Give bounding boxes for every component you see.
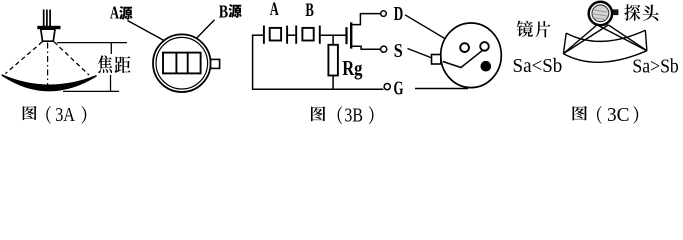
tab pointer polyline (443, 50, 483, 67)
svg-text:G: G (394, 78, 404, 100)
lens band bottom arc (563, 51, 647, 63)
pin circle right (480, 42, 489, 51)
IR source cap bar (37, 26, 60, 29)
svg-text:B: B (305, 0, 314, 21)
package key tab (432, 55, 441, 65)
pin circle left (460, 43, 469, 52)
wire bottom (252, 88, 384, 90)
svg-text:D: D (394, 3, 404, 25)
sensor outer circle (153, 34, 211, 92)
IR source pins (44, 10, 50, 27)
sensor inner circle (156, 37, 208, 89)
dimension line upper (110, 43, 112, 54)
svg-text:3A: 3A (55, 104, 75, 126)
concave mirror arc (2, 75, 96, 90)
lens band right cap (645, 30, 647, 51)
label 焦距 (focal length) (98, 55, 112, 73)
FET gate bar (345, 27, 347, 44)
element A left plate (263, 26, 265, 44)
caption 图（3A） (23, 106, 37, 120)
svg-text:B: B (219, 2, 228, 22)
ray left-right (597, 25, 647, 51)
package circle (441, 23, 502, 88)
lens band top arc (566, 30, 645, 41)
ray right-left (563, 25, 608, 54)
caption 图（3C） (572, 106, 587, 121)
pointer D to pin (405, 15, 454, 44)
probe outer ring (589, 2, 612, 25)
sensor side tab (211, 59, 220, 68)
FET channel bar (350, 22, 352, 48)
pointer G to case (415, 88, 468, 90)
probe tab (613, 9, 618, 15)
case pin dot (481, 61, 492, 72)
label 探头 (probe) (624, 4, 640, 20)
caption 图（3B） (311, 106, 325, 121)
label 镜片 (lens) (517, 21, 533, 37)
wire left vertical (252, 35, 254, 90)
element B left plate (295, 26, 297, 44)
svg-text:Rg: Rg (342, 56, 363, 80)
FET source lead (351, 46, 381, 49)
IR source body (41, 29, 55, 41)
element B right plate (319, 26, 321, 44)
pointer S to tab (408, 49, 432, 58)
terminal G circle (384, 84, 390, 90)
resistor Rg box (328, 45, 338, 76)
ray right-right (608, 25, 647, 51)
dashed ray left (6, 42, 43, 74)
pointer from B源 (197, 20, 215, 38)
element window block (163, 53, 201, 74)
focal plane base line (63, 90, 119, 92)
svg-text:S: S (394, 40, 403, 62)
terminal S circle (381, 46, 387, 52)
terminal D circle (381, 11, 387, 17)
dashed ray right (54, 42, 89, 75)
svg-text:Sa>Sb: Sa>Sb (632, 56, 678, 78)
svg-text:A: A (270, 0, 279, 20)
wire A-B segment (287, 34, 296, 36)
optical axis dash-dot (47, 43, 49, 89)
resistor Rg lead (332, 76, 334, 90)
dimension line lower (110, 75, 112, 91)
wire top segment 1 (252, 34, 264, 36)
pointer from A源 (128, 21, 165, 41)
lens band left cap (563, 33, 566, 54)
element A box (270, 28, 281, 41)
FET drain lead (351, 14, 381, 25)
svg-text:3B: 3B (344, 104, 363, 126)
element B box (302, 28, 313, 41)
svg-text:A: A (110, 3, 119, 23)
wire to gate (320, 34, 346, 36)
svg-text:Sa<Sb: Sa<Sb (513, 55, 563, 77)
focal ref line (57, 42, 127, 44)
svg-text:3C: 3C (607, 104, 630, 126)
element A right plate (286, 26, 288, 44)
probe inner circle (592, 5, 609, 22)
ray left-left (563, 25, 597, 54)
wire junction to Rg (332, 35, 334, 45)
